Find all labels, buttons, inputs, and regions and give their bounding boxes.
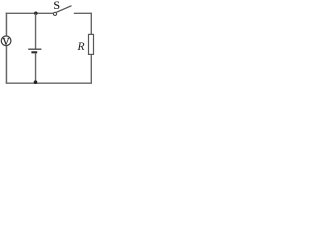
node: bottom junction dot — [34, 80, 38, 84]
battery long plate (+) — [28, 48, 41, 50]
background — [0, 0, 95, 85]
wire: right vertical lower segment — [90, 55, 92, 83]
resistor R box — [89, 34, 94, 54]
wire: right vertical upper segment — [90, 13, 92, 35]
wire: left vertical lower segment — [5, 46, 7, 83]
wire: bottom horizontal — [6, 82, 92, 84]
wire: middle vertical lower — [35, 53, 37, 83]
node: top junction dot — [34, 12, 38, 16]
wire: middle vertical upper (battery feed) — [35, 13, 37, 49]
voltmeter V1 circle — [1, 36, 11, 46]
svg-text:R: R — [77, 40, 85, 53]
battery short plate (-) — [31, 51, 37, 53]
wire: left vertical upper segment — [5, 13, 7, 36]
switch pivot circle — [53, 12, 56, 15]
switch blade — [56, 6, 71, 13]
svg-text:S: S — [53, 0, 60, 12]
wire: top-left horizontal segment — [6, 12, 54, 14]
wire: top-right horizontal segment — [74, 12, 92, 14]
